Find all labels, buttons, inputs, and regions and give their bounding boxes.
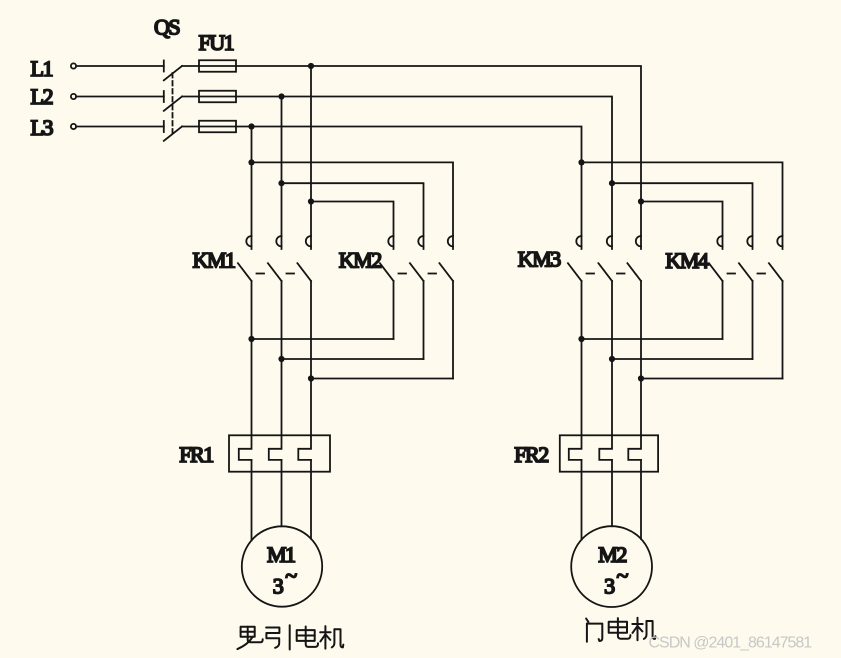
junction KM3/KM4 pole2 outputs [609,356,615,362]
wire KM3 pole3 lower [640,281,642,435]
wire M1 lead 2 [281,460,283,526]
switch QS pole L2 fixed contact [163,91,165,102]
terminal L2 [71,94,76,99]
contactor KM2 pole3 fixed contact arc [448,236,453,246]
contactor KM4 pole2 blade [739,263,753,281]
junction L1/KM1 feed [308,63,314,69]
svg-text:FR2: FR2 [514,442,548,467]
fuse FU1 element L3 [199,121,236,133]
overload relay FR1 heater element 3 [298,435,311,460]
contactor KM2 linkage (dashed) [399,273,407,275]
wire L3 down to KM1 pole1 [251,127,253,250]
svg-text:3: 3 [604,574,615,599]
wire L2 bus to KM3 feed [236,97,612,250]
svg-text:~: ~ [617,563,629,588]
wire KM1 pole3 lower [310,281,312,435]
wire KM1 pole2 lower [281,281,283,435]
junction KM1/KM2 pole2 outputs [278,356,284,362]
wire merge row V right [612,358,753,360]
wire KM1 pole1 lower [251,281,253,435]
switch QS pole L3 fixed contact [163,121,165,132]
wire QS to fuse L2 [182,96,199,98]
label 门电机 (door motor) [586,619,602,642]
overload relay FR2 heater element 1 [569,435,582,460]
svg-text:L3: L3 [31,115,54,140]
contactor KM3 pole2 blade [598,263,612,281]
junction L2/KM1 feed [278,93,284,99]
wire row L2 to KM2 pole2 [282,183,424,249]
contactor KM1 pole3 fixed contact arc [306,236,311,246]
wire M2 lead 2 [611,460,613,526]
terminal L1 [71,63,76,68]
junction L3/KM1 feed [248,123,254,129]
wire L2 supply to QS [76,96,164,98]
overload relay FR2 heater element 3 [628,435,641,460]
contactor KM3 pole3 fixed contact arc [636,236,641,246]
contactor KM2 pole1 fixed contact arc [388,236,393,246]
wire KM3 pole1 lower [581,281,583,435]
contactor KM2 pole2 fixed contact arc [418,236,423,246]
junction node L3/KM4 row [578,159,584,165]
wire merge row U left [252,338,394,340]
wire KM4 pole1 lower [722,281,724,339]
junction node L3/KM2 row [248,159,254,165]
contactor KM3 pole2 fixed contact arc [607,236,612,246]
contactor KM1 pole2 blade [268,263,282,281]
wire L3 supply to QS [76,126,164,128]
wire M1 lead 3 [310,460,312,539]
svg-text:KM4: KM4 [665,248,708,273]
wire row L1 to KM2 pole1 [311,202,394,250]
switch QS pole L1 blade [164,66,182,80]
junction KM3/KM4 pole3 outputs [638,375,644,381]
switch QS linkage (dashed) [172,73,174,136]
contactor KM4 pole1 fixed contact arc [717,236,722,246]
wire M1 lead 1 [251,460,253,540]
svg-text:FU1: FU1 [199,30,234,55]
junction KM3/KM4 pole1 outputs [578,336,584,342]
svg-text:L2: L2 [31,84,53,109]
junction KM1/KM2 pole1 outputs [248,336,254,342]
contactor KM4 pole1 blade [709,263,723,281]
contactor KM1 pole1 fixed contact arc [246,236,251,246]
terminal L3 [71,124,76,129]
svg-text:KM3: KM3 [518,247,561,272]
wire KM2 pole3 lower [452,281,454,379]
overload relay FR1 box [229,435,330,471]
contactor KM3 pole1 fixed contact arc [576,236,581,246]
contactor KM1 pole3 blade [297,263,311,281]
wire L2 down to KM1 pole2 [281,97,283,250]
contactor KM2 pole2 blade [410,263,424,281]
fuse FU1 element L1 [199,60,236,72]
contactor KM2 pole1 blade [380,263,394,281]
overload relay FR1 heater element 1 [239,435,252,460]
wire M2 lead 1 [581,460,583,540]
contactor KM4 pole3 fixed contact arc [777,236,782,246]
contactor KM1 pole1 blade [238,263,252,281]
wire KM3 pole2 lower [611,281,613,435]
switch QS pole L2 blade [164,97,182,111]
wire row L2 to KM4 pole2 [612,183,753,249]
junction node L1/KM2 row [308,198,314,204]
overload relay FR2 heater element 2 [599,435,612,460]
overload relay FR2 box [560,435,658,471]
wire KM2 pole1 lower [393,281,395,339]
contactor KM1 pole2 fixed contact arc [276,236,281,246]
contactor KM4 pole2 fixed contact arc [747,236,752,246]
fuse FU1 element L2 [199,91,236,103]
contactor KM3 pole1 blade [568,263,582,281]
wire merge row W left [311,378,453,380]
contactor KM1 linkage (dashed) [257,273,265,275]
wire merge row V left [282,358,424,360]
svg-text:QS: QS [154,15,179,40]
contactor KM3 pole3 blade [627,263,641,281]
svg-text:KM2: KM2 [339,248,381,273]
wire QS to fuse L1 [182,65,199,67]
svg-text:~: ~ [285,563,297,588]
svg-text:KM1: KM1 [193,248,235,273]
wire M2 lead 3 [640,460,642,539]
wire merge row U right [582,338,723,340]
svg-text:FR1: FR1 [179,442,213,467]
switch QS pole L3 blade [164,127,182,141]
overload relay FR1 heater element 2 [269,435,282,460]
wire L3 bus to KM3 feed [236,127,582,250]
motor M1 circle [242,526,322,606]
wire row L1 to KM4 pole1 [641,202,723,250]
wire L1 bus to KM3 feed [236,66,641,249]
contactor KM3 linkage (dashed) [587,273,595,275]
junction KM1/KM2 pole3 outputs [308,375,314,381]
junction node L2/KM4 row [609,180,615,186]
contactor KM2 pole3 blade [439,263,453,281]
contactor KM4 pole3 blade [769,263,783,281]
wire L1 supply to QS [76,65,164,67]
wire L1 down to KM1 pole3 [310,66,312,249]
label 曳引电机 (traction motor) [237,627,262,649]
svg-text:CSDN @2401_86147581: CSDN @2401_86147581 [649,635,813,652]
junction node L2/KM2 row [278,180,284,186]
switch QS pole L1 fixed contact [163,61,165,72]
motor M2 circle [571,526,652,607]
wire KM4 pole2 lower [752,281,754,359]
wire row L3 to KM2 pole3 [252,162,454,249]
wire KM2 pole2 lower [423,281,425,359]
wire KM4 pole3 lower [782,281,784,379]
wire merge row W right [641,378,783,380]
wire QS to fuse L3 [182,126,199,128]
svg-text:3: 3 [273,574,284,599]
contactor KM4 linkage (dashed) [728,273,736,275]
svg-text:L1: L1 [31,56,53,81]
junction node L1/KM4 row [638,198,644,204]
wire row L3 to KM4 pole3 [582,162,783,249]
